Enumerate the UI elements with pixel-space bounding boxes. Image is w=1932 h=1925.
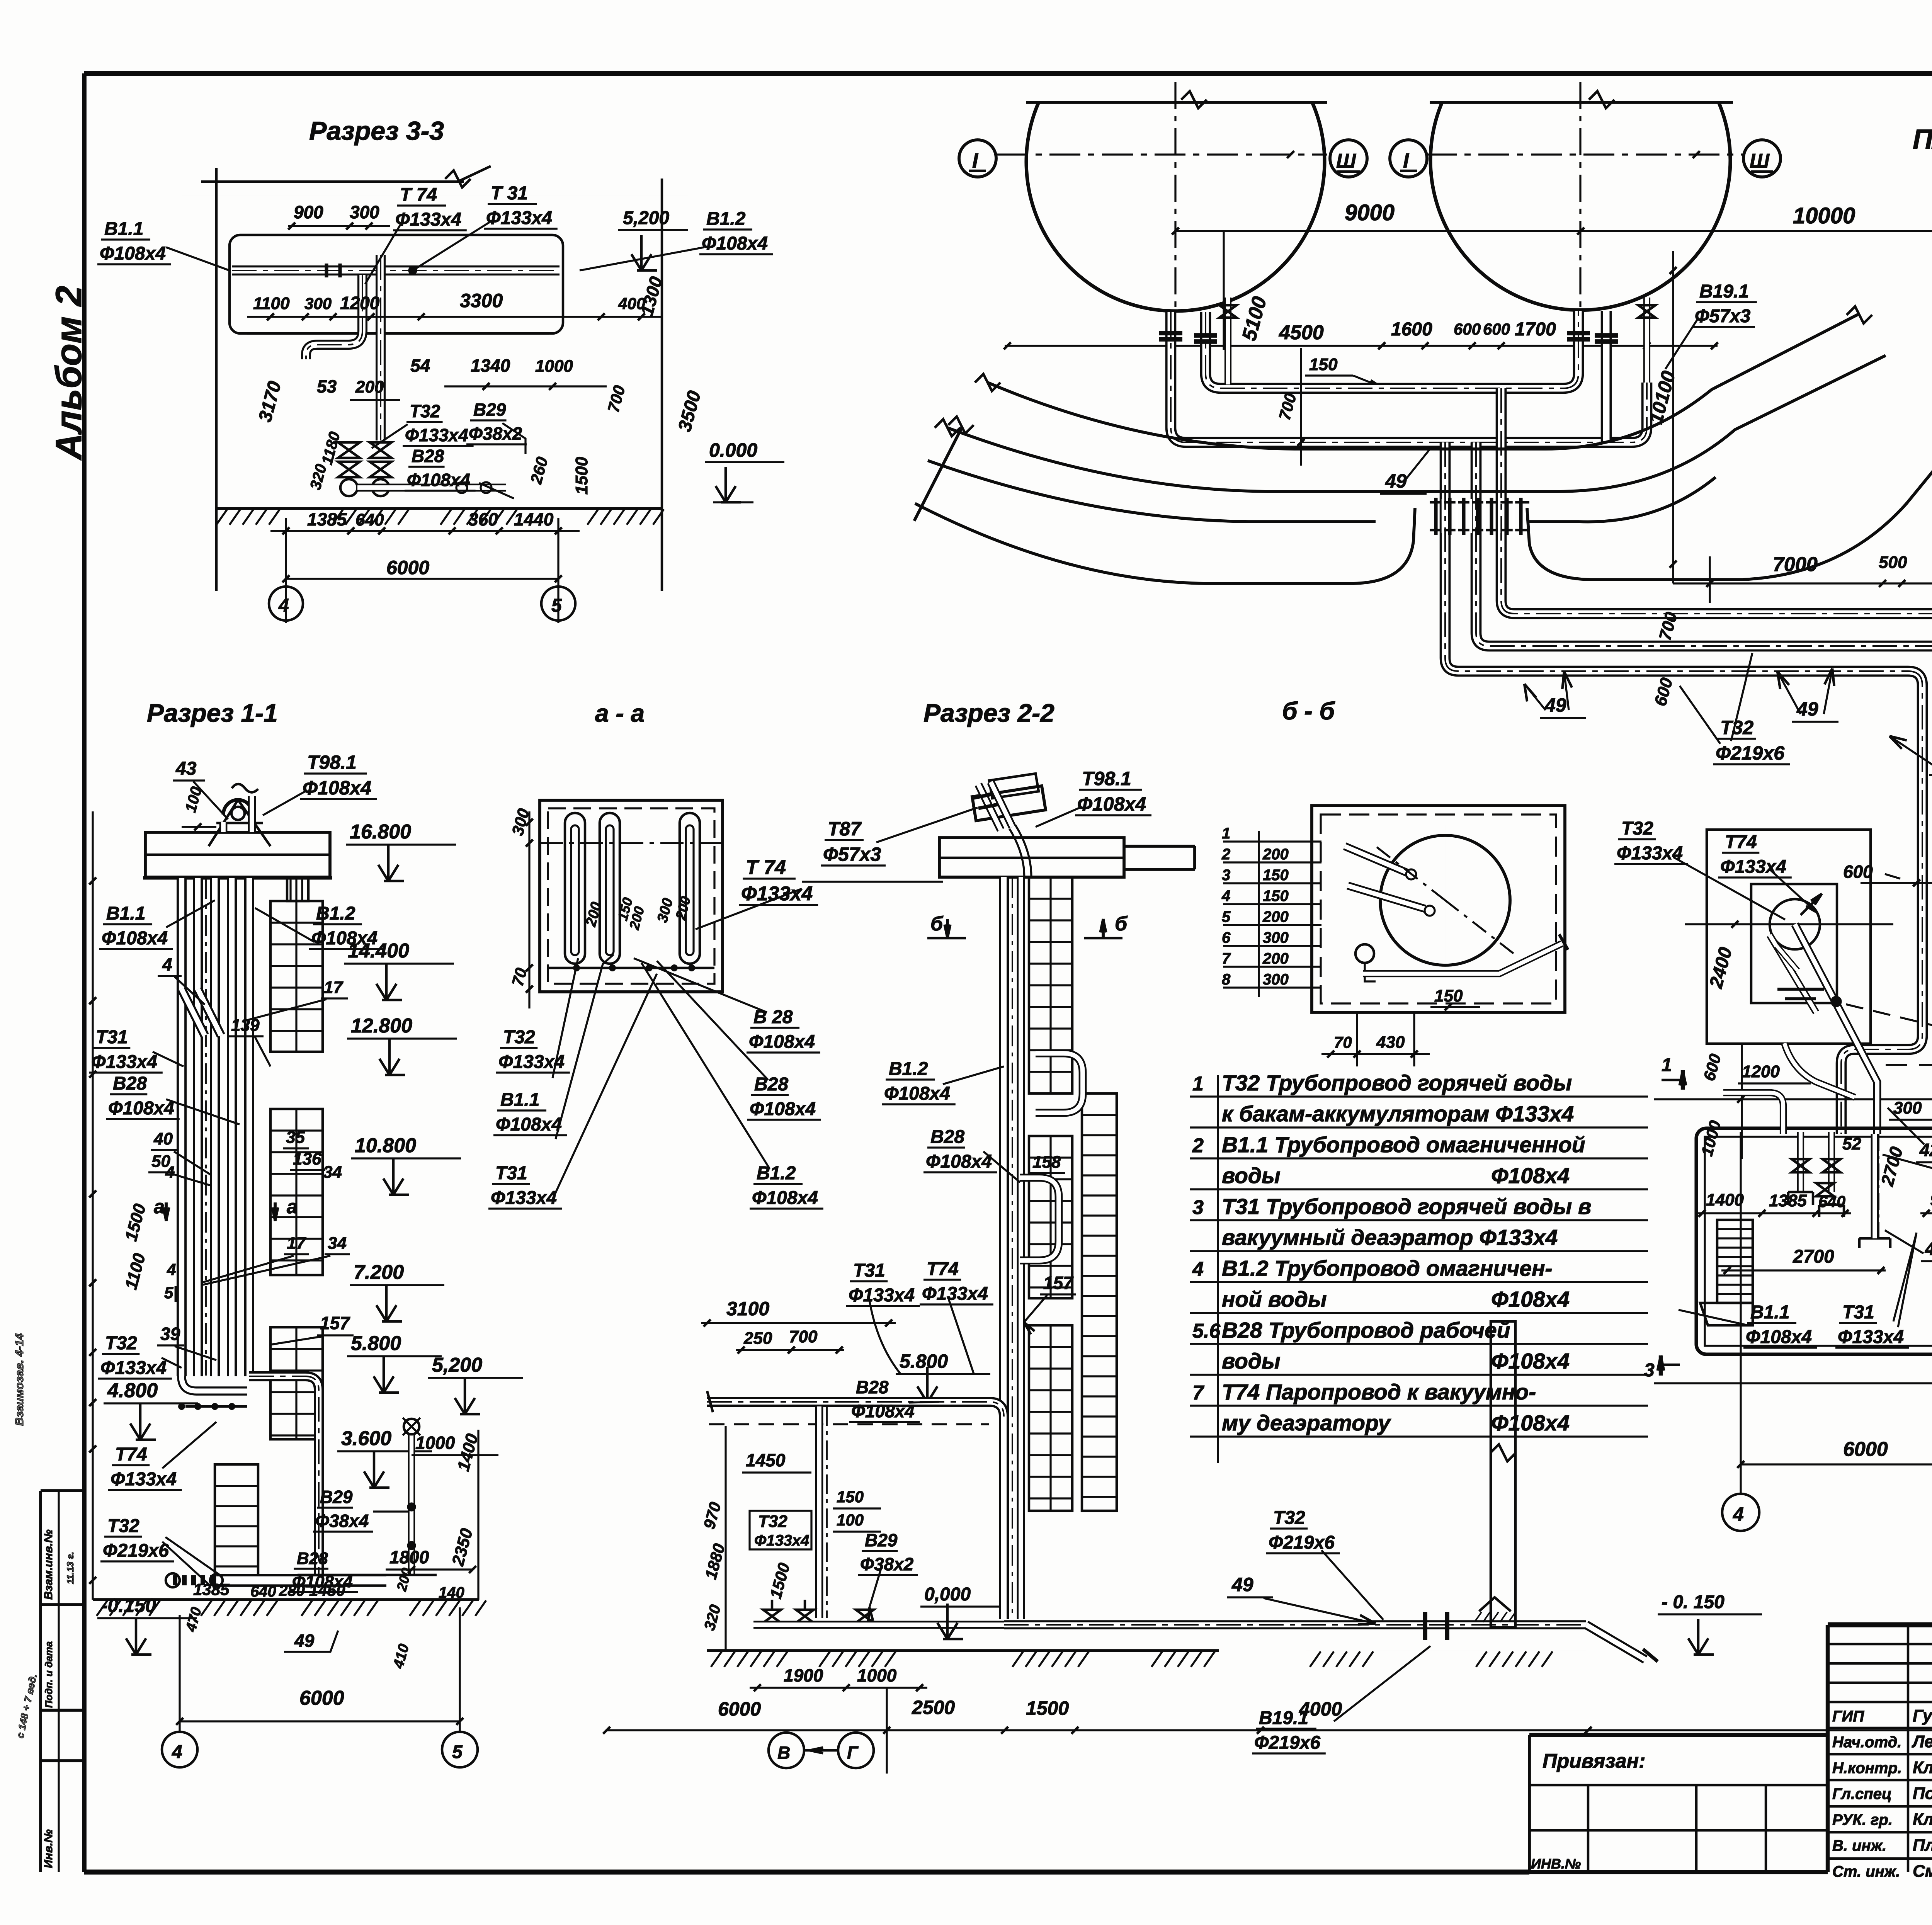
svg-text:воды: воды (1222, 1163, 1281, 1188)
svg-text:70: 70 (1334, 1033, 1352, 1051)
road band line 3b (1529, 477, 1716, 522)
svg-text:200: 200 (1262, 908, 1289, 925)
svg-text:Ф133х4: Ф133х4 (922, 1284, 988, 1304)
underground pipe run to right (1004, 1620, 1586, 1629)
valve stack right (370, 442, 391, 458)
svg-text:5,200: 5,200 (623, 208, 669, 228)
svg-text:157: 157 (320, 1313, 350, 1333)
upper risers through slab (219, 822, 228, 832)
axis marker III tank1 (1330, 140, 1367, 177)
svg-text:430: 430 (1376, 1033, 1405, 1052)
svg-text:1800: 1800 (389, 1547, 429, 1567)
section 1-1 top slab (145, 832, 330, 877)
svg-text:280: 280 (279, 1582, 305, 1599)
svg-text:В1.1 Трубопровод омагниченной: В1.1 Трубопровод омагниченной (1222, 1133, 1585, 1157)
svg-text:Т32 Трубопровод горячей воды: Т32 Трубопровод горячей воды (1222, 1071, 1572, 1095)
axis line markers tank2 (1426, 153, 1745, 155)
svg-text:4: 4 (1192, 1258, 1204, 1280)
svg-text:Ф108х4: Ф108х4 (102, 928, 168, 949)
svg-text:Ф108х4: Ф108х4 (750, 1099, 816, 1119)
svg-text:0.000: 0.000 (709, 439, 757, 461)
section 3-3 dim frame verticals (215, 168, 218, 591)
svg-text:В28: В28 (754, 1074, 788, 1095)
tank saddle outline (230, 235, 563, 333)
svg-text:4500: 4500 (1279, 321, 1324, 344)
detail diagonal pipe down to riser (1795, 924, 1877, 1134)
svg-text:49: 49 (1544, 694, 1566, 716)
svg-text:3300: 3300 (460, 290, 503, 311)
svg-text:Ф219х6: Ф219х6 (1254, 1733, 1320, 1753)
valve cluster at 0.000 sec22 (763, 1610, 781, 1623)
svg-text:В1.2 Трубопровод омагничен-: В1.2 Трубопровод омагничен- (1222, 1256, 1553, 1281)
svg-text:300: 300 (1893, 1099, 1922, 1117)
road left end cut line (914, 427, 962, 521)
hatch under right part (1310, 1651, 1321, 1667)
section marker 1 left (1681, 1070, 1685, 1090)
svg-text:Разрез 2-2: Разрез 2-2 (923, 699, 1054, 727)
svg-text:4.800: 4.800 (107, 1379, 158, 1402)
svg-text:150: 150 (1434, 986, 1463, 1005)
road band line 2 (947, 355, 1886, 491)
svg-text:6000: 6000 (718, 1698, 761, 1720)
svg-text:157: 157 (1043, 1273, 1074, 1293)
svg-text:Ф108х4: Ф108х4 (108, 1098, 174, 1119)
svg-text:1: 1 (1662, 1055, 1672, 1075)
svg-text:1600: 1600 (1391, 319, 1432, 340)
boiler house outline (1696, 1128, 1932, 1354)
svg-text:3: 3 (1644, 1360, 1655, 1381)
sec22 slab extension right (1124, 845, 1195, 848)
svg-text:Ф108х4: Ф108х4 (496, 1114, 562, 1135)
svg-text:Ф108х4: Ф108х4 (752, 1188, 818, 1208)
section 1-1 stack dome (223, 800, 253, 815)
svg-text:1: 1 (1222, 825, 1230, 842)
svg-text:1000: 1000 (857, 1665, 897, 1685)
svg-text:а: а (154, 1196, 165, 1218)
lower rail line (247, 332, 549, 335)
grid bubble 5 sec11 (442, 1732, 478, 1767)
vertical pipe T74 drop (376, 255, 386, 440)
svg-text:250: 250 (743, 1329, 772, 1348)
svg-text:б: б (930, 913, 944, 935)
svg-text:5: 5 (1222, 908, 1231, 925)
grid axis line G horizontal (1654, 1098, 1932, 1100)
lower brick column (215, 1464, 258, 1584)
b-b diagonal nozzles (1345, 846, 1406, 872)
valve stack left (338, 442, 360, 458)
svg-text:300: 300 (1263, 929, 1289, 946)
svg-text:Т31 Трубопровод горячей воды в: Т31 Трубопровод горячей воды в (1222, 1194, 1591, 1219)
svg-text:40: 40 (153, 1129, 173, 1148)
run C elbow down to boiler house (1841, 671, 1922, 1134)
svg-text:Т32: Т32 (105, 1333, 137, 1354)
upper pipes entering building (1723, 1093, 1783, 1134)
svg-text:1385: 1385 (193, 1580, 230, 1598)
tank1 downpipe 2 run A (1206, 311, 1578, 388)
svg-text:1450: 1450 (309, 1581, 345, 1599)
svg-text:му деаэратору: му деаэратору (1222, 1411, 1391, 1435)
svg-text:640: 640 (250, 1583, 276, 1600)
svg-text:1500: 1500 (572, 457, 591, 495)
svg-text:Т32: Т32 (1621, 818, 1653, 839)
svg-text:5.800: 5.800 (351, 1332, 401, 1355)
svg-text:3: 3 (1192, 1196, 1204, 1219)
svg-text:В1.2: В1.2 (889, 1059, 928, 1079)
svg-text:4: 4 (165, 1163, 174, 1181)
b-b outer box (1312, 806, 1565, 1012)
svg-text:Плинер: Плинер (1913, 1836, 1932, 1855)
svg-text:Ф108х4: Ф108х4 (1491, 1349, 1570, 1374)
dim row 1385 640 280 1450 (166, 1596, 348, 1597)
suction pipes to pits (357, 484, 506, 492)
svg-text:4: 4 (1221, 888, 1230, 905)
svg-text:9000: 9000 (1345, 200, 1395, 225)
svg-text:17: 17 (324, 978, 344, 997)
svg-text:150: 150 (837, 1488, 864, 1506)
svg-text:Гусева: Гусева (1913, 1706, 1932, 1725)
sec22 slanted pipes (978, 784, 1001, 830)
tank 1 vertical axis (1174, 82, 1176, 313)
svg-text:Ф133х4: Ф133х4 (1838, 1327, 1904, 1347)
svg-text:7.200: 7.200 (354, 1261, 404, 1284)
svg-text:Ф108х4: Ф108х4 (884, 1083, 950, 1104)
svg-text:700: 700 (789, 1327, 818, 1346)
svg-text:- 0. 150: - 0. 150 (1662, 1592, 1725, 1612)
svg-text:10000: 10000 (1793, 203, 1855, 228)
svg-text:ной воды: ной воды (1222, 1287, 1327, 1312)
svg-text:Ф108х4: Ф108х4 (1746, 1327, 1812, 1347)
svg-text:1: 1 (1192, 1073, 1204, 1095)
svg-text:2500: 2500 (912, 1697, 955, 1718)
svg-text:35: 35 (286, 1128, 305, 1147)
b-b small outlet circle (1355, 944, 1374, 963)
riser V2 to run B (1476, 442, 1932, 646)
svg-text:Т31: Т31 (1842, 1302, 1874, 1323)
axis marker III tank2 (1743, 140, 1781, 177)
sec22 top slab (939, 838, 1124, 877)
ground hatch sec22 (707, 1649, 1219, 1652)
svg-text:I: I (972, 149, 978, 172)
svg-text:12.800: 12.800 (351, 1015, 412, 1037)
pipe flanges (325, 264, 328, 277)
svg-text:Ф57х3: Ф57х3 (1695, 306, 1751, 327)
vertical dim line 10100 (1672, 251, 1674, 583)
svg-text:В1.2: В1.2 (757, 1163, 796, 1184)
svg-text:Взаимозав. 4-14: Взаимозав. 4-14 (13, 1333, 26, 1426)
grid bubble 4 sec11 (162, 1732, 197, 1767)
svg-text:100: 100 (837, 1511, 864, 1529)
svg-text:РУК. гр.: РУК. гр. (1832, 1811, 1893, 1828)
dim line 6000x3 plan (1741, 1463, 1932, 1465)
svg-text:2: 2 (1221, 846, 1230, 863)
svg-text:17: 17 (287, 1234, 306, 1253)
svg-text:Ф57х3: Ф57х3 (823, 843, 881, 865)
svg-text:5: 5 (551, 595, 562, 616)
grid bubble 4 of section 3-3 (269, 587, 303, 621)
road band line 3 (928, 461, 1376, 522)
svg-text:Ф108х4: Ф108х4 (1491, 1411, 1570, 1435)
svg-text:360: 360 (468, 509, 498, 529)
svg-text:1200: 1200 (1742, 1062, 1780, 1081)
sec22 core pipes (999, 877, 1009, 1619)
svg-text:Ф38х4: Ф38х4 (315, 1511, 369, 1531)
road band bottom right peninsula (1527, 335, 1932, 580)
svg-text:В28: В28 (856, 1377, 889, 1397)
svg-text:Ф108х4: Ф108х4 (100, 243, 166, 264)
svg-text:Лепендин: Лепендин (1912, 1732, 1932, 1751)
svg-text:Ф133х4: Ф133х4 (405, 425, 468, 445)
svg-text:В28: В28 (297, 1549, 328, 1568)
dims row 1100 300 1200 3300 400 (247, 316, 662, 318)
svg-text:Инв.№: Инв.№ (42, 1829, 55, 1868)
sec22 ladder column right (1082, 1093, 1117, 1511)
svg-text:Ф108х4: Ф108х4 (1077, 793, 1146, 815)
svg-text:В1.1: В1.1 (104, 219, 143, 239)
svg-text:В1.2: В1.2 (316, 903, 355, 924)
svg-text:200: 200 (1262, 950, 1289, 967)
svg-text:Т74: Т74 (927, 1259, 959, 1279)
svg-text:42: 42 (1919, 1140, 1932, 1160)
tank downpipe flanges (1159, 331, 1182, 335)
svg-text:Ф133х4: Ф133х4 (1720, 857, 1786, 877)
dashed line at 650 level (1886, 1064, 1932, 1066)
svg-text:39: 39 (160, 1324, 180, 1344)
svg-text:В28: В28 (412, 446, 444, 466)
svg-text:а - а: а - а (595, 699, 645, 727)
svg-text:Ш: Ш (1336, 150, 1356, 172)
svg-text:8: 8 (1222, 971, 1231, 988)
svg-text:Ф133х4: Ф133х4 (91, 1052, 157, 1072)
sec22 B28 loop lower (1020, 1178, 1059, 1260)
5.8 horizontal pipe run (707, 1402, 1004, 1417)
svg-text:49: 49 (1385, 470, 1407, 492)
svg-text:Т31: Т31 (853, 1260, 885, 1281)
svg-text:Альбом 2: Альбом 2 (48, 286, 89, 461)
svg-text:Т32: Т32 (758, 1512, 787, 1531)
svg-text:1385: 1385 (307, 509, 347, 529)
axis marker I tank2 (1390, 140, 1427, 177)
svg-text:600: 600 (1454, 320, 1481, 338)
svg-text:В29: В29 (473, 400, 506, 420)
svg-text:ГИП: ГИП (1832, 1708, 1864, 1725)
svg-text:Ш: Ш (1750, 150, 1770, 172)
svg-text:Т74: Т74 (115, 1444, 147, 1465)
svg-text:Ф108х4: Ф108х4 (1491, 1163, 1570, 1188)
svg-text:I: I (1403, 149, 1409, 172)
svg-text:150: 150 (1263, 867, 1289, 884)
grid bubble 4 plan (1722, 1494, 1759, 1531)
svg-text:Т87: Т87 (828, 818, 862, 840)
svg-text:воды: воды (1222, 1349, 1281, 1374)
ground line section 3-3 (216, 507, 662, 510)
svg-text:7: 7 (1222, 950, 1231, 967)
dim 9000 10000 line (1175, 230, 1932, 232)
svg-text:7000: 7000 (1773, 553, 1818, 576)
svg-text:140: 140 (439, 1584, 464, 1601)
svg-text:В29: В29 (320, 1487, 353, 1507)
svg-text:В1.1: В1.1 (500, 1090, 539, 1110)
svg-text:2: 2 (1192, 1134, 1204, 1157)
pipe bundle elbow to horizontal 5.2 run (249, 1376, 319, 1575)
svg-text:10.800: 10.800 (355, 1134, 416, 1157)
svg-text:5.800: 5.800 (900, 1350, 948, 1372)
svg-text:В28: В28 (930, 1127, 964, 1147)
slab step block (287, 878, 308, 901)
svg-text:1000: 1000 (415, 1433, 455, 1453)
svg-text:1000: 1000 (535, 357, 573, 376)
svg-text:В28: В28 (113, 1073, 147, 1094)
bundle jog at 14.4 level (182, 989, 205, 1036)
mound symbol (1479, 1597, 1511, 1611)
svg-text:Т 31: Т 31 (491, 183, 528, 204)
tank 2 vertical axis (1579, 82, 1581, 313)
tie dots at 4.8 level (179, 1404, 184, 1409)
svg-text:3: 3 (1222, 867, 1230, 884)
base frame lines sec11 (298, 1574, 437, 1576)
tank 1 body (1026, 102, 1325, 311)
main horizontal pipe B1.1 (232, 265, 560, 275)
svg-text:План наружных трубопроводов: План наружных трубопроводов (1913, 124, 1932, 155)
svg-text:158: 158 (1032, 1153, 1061, 1172)
svg-text:3100: 3100 (726, 1298, 769, 1320)
riser V1 to run C (1445, 442, 1908, 671)
svg-text:1500: 1500 (1026, 1697, 1069, 1719)
riser B29 at right (408, 1434, 415, 1575)
svg-text:Клоков: Клоков (1913, 1758, 1932, 1777)
a-a upper chord line (540, 842, 723, 844)
svg-text:1400: 1400 (1706, 1190, 1744, 1209)
culvert bars on underground run (1423, 1612, 1427, 1640)
svg-text:Ф133х4: Ф133х4 (111, 1469, 177, 1490)
dim row 900 1440 1400 in plan (1920, 1212, 1932, 1214)
svg-text:Ф108х4: Ф108х4 (851, 1401, 915, 1421)
svg-text:200: 200 (1262, 846, 1289, 863)
dim row 1400 1385 640 in plan (1696, 1212, 1851, 1214)
svg-text:49: 49 (1231, 1574, 1253, 1595)
svg-text:Ф219х6: Ф219х6 (1269, 1532, 1335, 1553)
svg-text:53: 53 (317, 376, 337, 396)
svg-text:11.13 г.: 11.13 г. (65, 1552, 76, 1584)
arrow into inner box (1801, 894, 1822, 915)
svg-text:б - б: б - б (1282, 697, 1336, 725)
road band line 1 (988, 314, 1859, 449)
svg-text:Т74: Т74 (1725, 832, 1757, 852)
svg-text:1385: 1385 (1769, 1191, 1807, 1210)
sec22 B28 loop upper (1036, 1053, 1083, 1113)
pipe sleeve capsule at base (216, 1574, 386, 1587)
tank 2 body (1430, 102, 1730, 310)
svg-text:640: 640 (1818, 1192, 1845, 1211)
svg-text:5,200: 5,200 (432, 1354, 482, 1376)
section 1-1 left dim line (92, 811, 94, 1600)
dim row 4500 1600 600 600 1700 (1005, 345, 1718, 347)
a-a leaders left labels (553, 958, 578, 1078)
tank1 valve stub (1225, 298, 1231, 384)
svg-text:Клоков: Клоков (1913, 1810, 1932, 1829)
svg-text:Н.контр.: Н.контр. (1832, 1760, 1902, 1777)
svg-text:Разрез 1-1: Разрез 1-1 (147, 699, 278, 727)
svg-text:Ф133х4: Ф133х4 (754, 1532, 809, 1549)
svg-text:43: 43 (175, 758, 197, 779)
pipe bundle verticals (177, 878, 187, 1376)
svg-text:Ф38х2: Ф38х2 (469, 423, 522, 444)
svg-text:4: 4 (172, 1742, 182, 1762)
svg-text:Т98.1: Т98.1 (307, 752, 357, 773)
b-b bottom pipe with diagonal exit (1363, 944, 1562, 974)
svg-text:6000: 6000 (1843, 1438, 1888, 1461)
svg-text:150: 150 (1309, 355, 1338, 374)
detail inner box (1751, 884, 1837, 1003)
detail axis line (1685, 923, 1893, 925)
svg-text:54: 54 (410, 355, 430, 376)
svg-text:5|: 5| (164, 1284, 178, 1302)
dim row 7000 500 3300 150 over run A (1673, 582, 1932, 584)
svg-text:к бакам-аккумуляторам Ф133х4: к бакам-аккумуляторам Ф133х4 (1222, 1102, 1574, 1126)
svg-text:300: 300 (1263, 971, 1289, 988)
svg-text:52: 52 (1842, 1134, 1861, 1153)
svg-text:Ф108х4: Ф108х4 (303, 777, 371, 799)
svg-text:Разрез 3-3: Разрез 3-3 (309, 116, 444, 146)
svg-text:200: 200 (355, 378, 384, 396)
left margin stamp strip (41, 1489, 84, 1492)
svg-text:136: 136 (293, 1150, 321, 1168)
culvert casing under road (1430, 501, 1529, 504)
road band bottom with culvert notch (915, 503, 1415, 583)
svg-text:б: б (1115, 913, 1128, 935)
riser V3 to run A (1501, 388, 1932, 614)
svg-text:4: 4 (278, 595, 289, 616)
dim row 1385 640 (270, 530, 580, 532)
svg-text:Ф108х4: Ф108х4 (702, 233, 768, 254)
axis line through markers I-III tank1 (997, 153, 1327, 155)
svg-text:Т31: Т31 (96, 1027, 128, 1048)
a-a bottom rail (548, 967, 714, 969)
svg-text:Г: Г (847, 1743, 859, 1763)
svg-text:Ф133х4: Ф133х4 (491, 1188, 557, 1208)
svg-text:4: 4 (167, 1260, 176, 1279)
svg-text:а: а (287, 1196, 298, 1218)
a-a leaders right labels (634, 958, 767, 1012)
svg-text:Ф108х4: Ф108х4 (311, 928, 378, 949)
tank 2 chord line (1430, 101, 1733, 104)
axis marker I tank1 (959, 140, 996, 177)
svg-text:Гл.спец: Гл.спец (1832, 1786, 1892, 1803)
svg-text:Ф219х6: Ф219х6 (103, 1541, 169, 1561)
tank2 middle downpipe (1601, 311, 1612, 442)
svg-text:5.6: 5.6 (1192, 1320, 1221, 1342)
svg-text:Нач.отд.: Нач.отд. (1832, 1734, 1901, 1751)
sec22 roof tilted plate (972, 786, 1046, 821)
svg-text:Ф219х6: Ф219х6 (1716, 742, 1785, 764)
svg-text:0,000: 0,000 (924, 1584, 971, 1605)
svg-text:16.800: 16.800 (350, 821, 411, 843)
svg-text:Смирнова: Смирнова (1913, 1862, 1932, 1881)
svg-text:Т32: Т32 (1273, 1508, 1305, 1528)
svg-text:1100: 1100 (253, 294, 290, 313)
svg-text:1440: 1440 (514, 509, 554, 529)
svg-text:Т32: Т32 (503, 1027, 535, 1048)
svg-text:1200: 1200 (340, 293, 380, 313)
svg-text:Т32: Т32 (107, 1516, 139, 1536)
wall column right of sec22 (1491, 1321, 1515, 1627)
section marker 3 left (1659, 1355, 1663, 1376)
svg-text:6000: 6000 (386, 557, 429, 578)
svg-text:В19.1: В19.1 (1699, 281, 1749, 302)
dim 6000 row (286, 578, 558, 580)
svg-text:Ф133х4: Ф133х4 (849, 1285, 915, 1306)
svg-text:150: 150 (1263, 888, 1289, 905)
svg-text:600: 600 (1483, 320, 1510, 338)
